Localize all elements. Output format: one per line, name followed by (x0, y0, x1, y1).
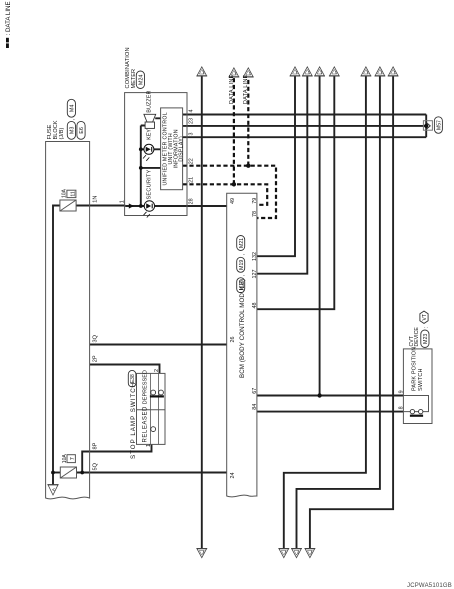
svg-text:M19: M19 (239, 260, 245, 270)
svg-text:DEVICE: DEVICE (414, 327, 420, 347)
wire M57 cross segment (425, 115, 427, 138)
labels BCM bottom pins (252, 198, 258, 410)
wire meter pin28 to BCM pin49 (187, 205, 227, 207)
connector M18 (237, 278, 245, 293)
fuse F11 rating box (67, 190, 76, 197)
svg-text:78: 78 (252, 211, 258, 217)
stop lamp switch divider (137, 409, 166, 411)
page arrows right (196, 67, 398, 77)
svg-text:48: 48 (252, 303, 258, 309)
svg-text:SECURITY: SECURITY (147, 170, 153, 200)
svg-text:DATA LINE: DATA LINE (229, 74, 235, 104)
combination meter box (125, 93, 187, 216)
svg-text:1N: 1N (93, 196, 99, 203)
svg-text:1: 1 (119, 200, 125, 203)
fuse F7 rating box (67, 455, 75, 463)
key indicator LED (143, 144, 154, 161)
svg-text:DATA LINE: DATA LINE (243, 74, 249, 104)
wire data line CAN-L meter pin21 to BCM pin79 (183, 184, 268, 205)
svg-text:11: 11 (71, 191, 77, 196)
svg-text:84: 84 (252, 404, 258, 410)
stop lamp switch released contact (151, 427, 156, 432)
wire fuse1 to meter 1N (76, 205, 125, 207)
wire long through line (201, 76, 203, 549)
wire data line CAN-L to arrow (233, 77, 235, 184)
M57 chevron (427, 123, 431, 129)
svg-text:M3: M3 (70, 127, 76, 135)
wire data line CAN-H meter pin22 to BCM pin78 (183, 166, 276, 218)
svg-text:M4: M4 (70, 105, 76, 113)
svg-text:DEPRESSED: DEPRESSED (142, 370, 148, 404)
wire fuse block 3Q to BCM pin26 (90, 344, 227, 346)
svg-text:(J/B): (J/B) (59, 128, 65, 140)
wire fuse2 to junction (77, 472, 227, 474)
connector M3 (67, 121, 75, 139)
svg-text:4: 4 (189, 110, 195, 113)
svg-text:3Q: 3Q (93, 334, 99, 342)
svg-text:3: 3 (189, 133, 195, 136)
svg-text:M21: M21 (239, 238, 245, 248)
wire battery rail (53, 206, 60, 485)
meter entry arrow (129, 203, 134, 208)
svg-text:67: 67 (252, 388, 258, 394)
wire led feed branch (140, 126, 142, 207)
fuse F11 (60, 200, 76, 211)
connector M21 (237, 236, 245, 251)
power source arrow A (47, 485, 58, 495)
wire 8P branch to stop lamp switch pin1 (82, 444, 151, 472)
buzzer (144, 114, 156, 128)
fuse F7 (60, 467, 76, 478)
svg-text:DISPLAY): DISPLAY) (178, 136, 184, 162)
wire key led stubs (141, 148, 161, 150)
unified meter control unit box (161, 108, 183, 190)
svg-text:26: 26 (230, 337, 236, 343)
wire page link A (284, 76, 366, 549)
svg-text:79: 79 (252, 198, 258, 204)
wire BCM pin132 to arrow (257, 76, 295, 256)
svg-text:22: 22 (189, 158, 195, 164)
option marker VT (420, 311, 428, 323)
svg-text:VT: VT (422, 314, 428, 320)
svg-text:M18: M18 (239, 280, 245, 290)
connector M23 (421, 330, 429, 348)
svg-text:7: 7 (70, 457, 76, 460)
security indicator LED (144, 201, 155, 218)
svg-text:23: 23 (189, 118, 195, 124)
svg-text:PARK POSITION: PARK POSITION (412, 347, 418, 391)
svg-text:KEY: KEY (147, 129, 153, 140)
wire page link C (310, 76, 393, 549)
wire meter pin4 to M57 (183, 114, 427, 116)
wire page link B (297, 76, 380, 549)
stop lamp switch depressed contacts (151, 390, 156, 395)
wire tap to arrow (319, 76, 321, 396)
svg-text:M24: M24 (139, 75, 145, 86)
label CVT device (409, 327, 420, 347)
svg-text:: DATA LINE: : DATA LINE (5, 1, 12, 35)
labels meter pins (189, 110, 195, 205)
svg-text:RELEASED: RELEASED (142, 406, 148, 443)
svg-text:8: 8 (398, 406, 404, 409)
BCM box (227, 193, 257, 497)
connector E6 (77, 121, 85, 139)
wire BCM pin84 to park switch pin8 (257, 411, 403, 413)
park position switch contact frame (403, 396, 428, 412)
svg-text:2P: 2P (93, 355, 99, 362)
svg-text:BCM (BODY CONTROL MODULE): BCM (BODY CONTROL MODULE) (239, 279, 246, 378)
connector M24 (136, 71, 144, 89)
connector M4 (67, 99, 75, 117)
label unified meter control unit (163, 112, 185, 185)
svg-text:SWITCH: SWITCH (418, 368, 424, 391)
wire BCM pin48 to arrow (257, 76, 334, 309)
svg-text:21: 21 (189, 177, 195, 183)
label fuse block (47, 120, 65, 139)
svg-text:24: 24 (230, 473, 236, 479)
wire branch to unified unit (141, 167, 161, 169)
svg-text:132: 132 (252, 252, 258, 261)
wire BCM pin67 to park switch pin9 (257, 395, 403, 397)
wire meter pin23 to M57 (183, 125, 427, 127)
fuse block J/B box (46, 142, 90, 499)
svg-text:9: 9 (398, 390, 404, 393)
svg-text:E6: E6 (79, 127, 85, 134)
label park position switch (412, 347, 425, 391)
labels BCM top pins (230, 198, 236, 479)
wire meter pin3 to M57 (183, 136, 427, 138)
junction dots data line (232, 182, 236, 186)
wire BCM pin127 to arrow (257, 76, 307, 274)
stop lamp switch depressed bridge bar (150, 395, 164, 397)
wire data line CAN-H to arrow (247, 77, 249, 166)
svg-text:BUZZER: BUZZER (147, 91, 153, 113)
legend data line (5, 1, 12, 48)
svg-text:127: 127 (252, 270, 258, 279)
wire security lamp circuit (125, 205, 226, 207)
park position switch bridge bar (410, 415, 423, 417)
svg-text:,: , (70, 118, 76, 120)
svg-text:49: 49 (230, 198, 236, 204)
wire buzzer stubs (141, 118, 161, 125)
svg-text:STOP LAMP SWITCH: STOP LAMP SWITCH (130, 382, 137, 459)
M57 junction box (423, 121, 432, 131)
svg-text:,: , (240, 253, 246, 255)
park position switch contacts (410, 409, 414, 413)
svg-text::: : (423, 327, 429, 328)
svg-text:M57: M57 (437, 120, 443, 130)
junction dots (51, 471, 55, 475)
connector M57 (434, 117, 442, 134)
svg-text:5Q: 5Q (93, 462, 99, 470)
svg-text:E38: E38 (130, 374, 136, 383)
wire fuse block 2P to stop lamp switch pin2 (90, 365, 160, 374)
svg-text:2: 2 (154, 369, 160, 372)
page id (407, 583, 452, 589)
svg-text:1: 1 (146, 444, 152, 447)
connector E38 (128, 370, 136, 387)
label combination meter (125, 47, 137, 88)
svg-text:M23: M23 (423, 334, 429, 344)
wire fuse2 feed (53, 472, 60, 474)
svg-text:,: , (240, 275, 246, 277)
CVT device box (403, 349, 432, 424)
connector M19 (237, 257, 245, 272)
svg-text:10A: 10A (62, 188, 68, 198)
stop lamp switch box (137, 373, 166, 444)
stop lamp switch rails (151, 373, 159, 444)
svg-text:28: 28 (189, 198, 195, 204)
page arrows left (196, 549, 315, 558)
svg-text:10A: 10A (62, 454, 68, 464)
svg-text:8P: 8P (93, 442, 99, 449)
